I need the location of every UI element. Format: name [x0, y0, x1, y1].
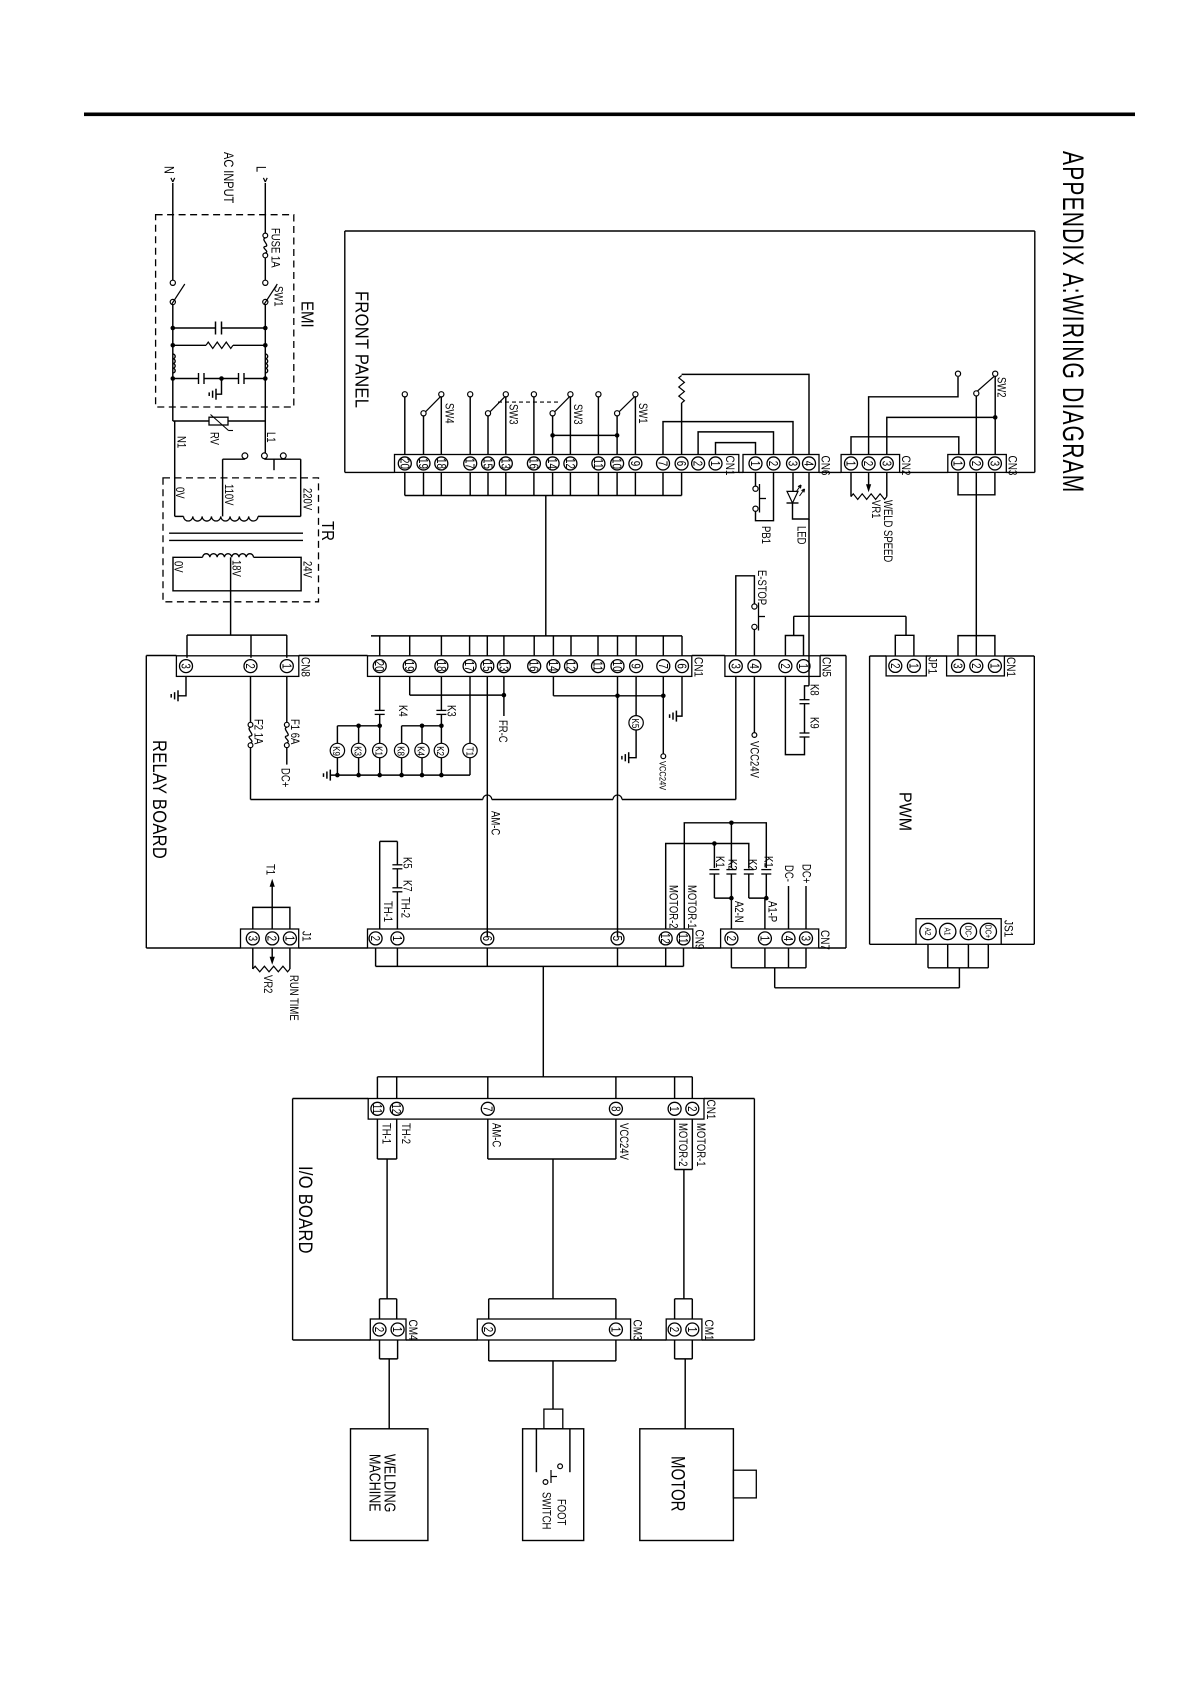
pin 19 CN1 relay board — [402, 660, 416, 673]
wire CN8 feed bus — [187, 635, 287, 658]
contact K9 — [785, 676, 809, 754]
pin 3 CN2 — [879, 457, 893, 470]
pin 2 CN1 PWM — [968, 659, 982, 672]
pin 3 CN3 — [987, 457, 1001, 470]
contact K4 on CN1 pin20 line — [375, 676, 385, 725]
contact K1 right — [761, 870, 771, 899]
wire pin7 to VCC24V terminal — [661, 696, 666, 759]
pin 1 CM1 — [684, 1323, 698, 1336]
pin 1 CN3 — [950, 457, 964, 470]
pin 2 CN1 I/O — [684, 1102, 698, 1115]
pin 12 CN1 I/O — [389, 1102, 403, 1115]
connector CN1 (front panel) — [395, 455, 739, 473]
svg-text:2: 2 — [766, 461, 779, 466]
gang dashed link SW3 — [498, 401, 560, 403]
svg-text:K9: K9 — [331, 746, 342, 756]
connector CN1 (I/O board) — [368, 1099, 704, 1120]
pin 1 CN8 — [279, 660, 293, 673]
wire front panel bus feed to relay CN1 bus — [545, 496, 547, 636]
svg-text:CN3: CN3 — [1005, 456, 1018, 476]
wire SW2 pivot to CN3 pin2 — [975, 396, 977, 455]
wire CN7 pins bracket — [731, 948, 806, 988]
fuse FUSE 1A — [263, 233, 268, 258]
svg-text:2: 2 — [372, 1327, 385, 1332]
fuse F1 6A — [284, 676, 289, 747]
motor shaft — [733, 1470, 756, 1498]
svg-text:CN1: CN1 — [691, 657, 704, 677]
wire 24V rail to CN5 pin3 with hops — [251, 676, 736, 799]
I/O BOARD box — [293, 1099, 755, 1341]
pin 11 CN1 front panel — [591, 457, 605, 470]
svg-text:T1: T1 — [263, 864, 276, 875]
pin 2 CN1 front panel — [690, 457, 704, 470]
connector CN1 (relay board) — [368, 656, 692, 677]
svg-text:AC INPUT: AC INPUT — [221, 152, 236, 204]
pin 2 JP1 — [887, 659, 901, 672]
svg-text:2: 2 — [778, 663, 791, 668]
pin 11 CN1 I/O — [370, 1102, 384, 1115]
ground CN8 pin3 — [171, 690, 178, 701]
svg-text:TH-1: TH-1 — [381, 901, 394, 922]
svg-text:20: 20 — [397, 458, 410, 469]
svg-text:2: 2 — [243, 663, 256, 668]
pin 3 J1 — [245, 932, 259, 945]
svg-text:K4: K4 — [396, 705, 409, 717]
wire MOTOR-2 net H2 — [666, 841, 749, 929]
svg-text:9: 9 — [628, 461, 641, 466]
pin 14 CN1 front panel — [545, 457, 559, 470]
wire CM3 to foot switch — [489, 1340, 616, 1409]
wire pin7 to CN6 pin3 — [663, 422, 793, 455]
svg-text:15: 15 — [479, 661, 492, 672]
relay coil bus K9 K3 K1 — [337, 724, 382, 729]
pin 1 CN1 front panel — [708, 457, 722, 470]
switch SW3 first — [485, 392, 508, 455]
pin 3 CN5 — [728, 660, 742, 673]
svg-text:RELAY BOARD: RELAY BOARD — [149, 740, 171, 859]
wire LED branch down to relay K8 chain — [808, 519, 810, 686]
svg-text:VCC24V: VCC24V — [747, 741, 760, 779]
contact K2 right — [744, 870, 754, 899]
svg-text:E-STOP: E-STOP — [755, 570, 768, 605]
svg-text:4: 4 — [781, 936, 794, 941]
wire L fuse to switch — [264, 258, 266, 280]
connector CM4 — [370, 1319, 406, 1340]
svg-text:SW3: SW3 — [506, 404, 519, 425]
svg-text:VR2: VR2 — [261, 975, 274, 994]
connector CN6 (front panel) — [743, 455, 819, 473]
pin 6 CN1 relay board — [674, 660, 688, 673]
capacitor Y rail with center ground — [171, 373, 268, 384]
pin 2 CM3 — [481, 1323, 495, 1336]
svg-text:CN7: CN7 — [818, 930, 831, 950]
svg-text:MOTOR-1: MOTOR-1 — [694, 1123, 707, 1167]
FOOT SWITCH box — [523, 1429, 584, 1541]
svg-text:0V: 0V — [171, 561, 184, 573]
svg-text:K3: K3 — [444, 705, 457, 717]
wire AM-C vertical pin15 to pin6 bottom — [486, 676, 488, 937]
svg-text:CN1: CN1 — [704, 1100, 717, 1120]
connector CN5 (relay board) — [725, 656, 820, 677]
svg-text:2: 2 — [368, 936, 381, 941]
svg-text:PB1: PB1 — [759, 526, 772, 544]
wire N switch to rail — [172, 305, 174, 380]
svg-text:6: 6 — [674, 663, 687, 668]
svg-text:SW1: SW1 — [271, 286, 284, 307]
svg-text:SW2: SW2 — [994, 377, 1007, 398]
pin 2 CN3 — [968, 457, 982, 470]
svg-text:4: 4 — [801, 461, 814, 466]
connector JP1 — [886, 656, 926, 676]
pin 10 CN1 relay board — [610, 660, 624, 673]
svg-text:AM-C: AM-C — [488, 811, 501, 836]
svg-text:1: 1 — [757, 936, 770, 941]
wire JP1 bracket from CN5 link — [895, 616, 914, 656]
pin DC- JS1 — [960, 923, 976, 939]
svg-text:VCC24V: VCC24V — [657, 761, 668, 791]
wire bracket above PWM CN1 pins 3-1 — [958, 636, 995, 656]
wire pin10 net down to bottom pin5 — [617, 696, 619, 938]
pin 12 CN1 relay board — [563, 660, 577, 673]
wire primary tap select bracket 220V — [264, 459, 300, 471]
transformer core — [169, 533, 303, 540]
switch SW1 pole L — [263, 280, 278, 304]
pin 3 CN7 — [798, 932, 812, 945]
wire L1 down — [264, 379, 266, 453]
wire JS1 pins bracket — [928, 944, 988, 968]
wire F2 to 24V rail — [250, 748, 252, 800]
svg-text:SW3: SW3 — [571, 404, 584, 425]
svg-text:2: 2 — [684, 1106, 697, 1111]
svg-text:19: 19 — [416, 458, 429, 469]
pin A2 JS1 — [920, 923, 936, 939]
wire L switch to rail — [264, 305, 266, 380]
connector JS1 — [916, 919, 1001, 945]
wire I/O top bracket bus — [377, 1077, 692, 1099]
svg-text:A1-P: A1-P — [765, 901, 778, 922]
pin 18 CN1 relay board — [434, 660, 448, 673]
inductor choke L — [265, 354, 267, 373]
pin 1 CN2 — [843, 457, 857, 470]
switch SW1 front panel — [615, 392, 639, 455]
pin 4 CN5 — [747, 660, 761, 673]
pin 7 CN1 I/O — [480, 1102, 494, 1115]
primary winding coil — [175, 421, 301, 516]
svg-text:LED: LED — [794, 526, 807, 545]
svg-text:4: 4 — [747, 663, 760, 668]
wire CM4 to welding machine — [380, 1340, 398, 1429]
wire N input — [172, 183, 174, 280]
pin 20 CN1 relay board — [372, 660, 386, 673]
PWM box — [870, 656, 1035, 944]
svg-text:K3: K3 — [352, 746, 363, 756]
svg-text:MOTOR: MOTOR — [667, 1456, 689, 1511]
wire J1 pin2 T1 arrow — [270, 879, 275, 929]
connector J1 — [241, 929, 299, 948]
pin 9 CN1 front panel — [628, 457, 642, 470]
pin 1 JP1 — [906, 659, 920, 672]
svg-text:DC+: DC+ — [799, 864, 812, 883]
svg-text:L1: L1 — [264, 432, 277, 443]
pin 1 CN6 — [748, 457, 762, 470]
svg-text:10: 10 — [609, 458, 622, 469]
svg-text:2: 2 — [968, 461, 981, 466]
secondary winding coil — [203, 554, 254, 558]
svg-text:1: 1 — [282, 936, 295, 941]
svg-text:3: 3 — [798, 936, 811, 941]
svg-text:I/O BOARD: I/O BOARD — [295, 1166, 316, 1254]
pin 17 CN1 relay board — [462, 660, 476, 673]
wire F1 to DC+ stub — [286, 748, 288, 765]
svg-text:14: 14 — [545, 458, 558, 469]
svg-text:13: 13 — [496, 661, 509, 672]
wire pin6 to ground — [676, 676, 682, 716]
node L (AC input) — [253, 166, 268, 182]
terminal pin16 line — [531, 392, 536, 455]
svg-text:A2-N: A2-N — [732, 901, 745, 923]
svg-text:CN2: CN2 — [899, 456, 912, 476]
svg-text:16: 16 — [526, 661, 539, 672]
wire CN3 pins1-3 bracket — [958, 472, 995, 494]
svg-text:6: 6 — [479, 936, 492, 941]
svg-text:CM3: CM3 — [630, 1320, 643, 1341]
svg-text:K5: K5 — [630, 719, 641, 729]
svg-text:15: 15 — [480, 458, 493, 469]
wire pins 14-10-7 common — [553, 676, 665, 698]
pin 4 CN7 — [781, 932, 795, 945]
svg-text:K1: K1 — [761, 856, 774, 868]
pin 2 CM1 — [667, 1323, 681, 1336]
svg-text:0V: 0V — [173, 487, 186, 499]
pin 12 CN9 — [658, 932, 672, 945]
pin 1 CM3 — [608, 1323, 622, 1336]
relay coil bus K8 K4 K2 — [402, 724, 444, 729]
svg-text:1: 1 — [279, 663, 292, 668]
pin 1 CN9 — [390, 932, 404, 945]
pin 2 CN6 — [766, 457, 780, 470]
svg-text:3: 3 — [987, 461, 1000, 466]
svg-text:1: 1 — [843, 461, 856, 466]
wire J1 pins 3-1 bracket — [253, 907, 290, 929]
switch SW2 — [955, 371, 997, 396]
transformer TR dashed box — [163, 478, 319, 602]
svg-text:1: 1 — [796, 663, 809, 668]
wire CN2 pin1 to CN3 pin1 — [851, 437, 959, 455]
svg-text:TR: TR — [318, 521, 339, 541]
pin 6 CN1 front panel — [674, 457, 688, 470]
svg-text:K2: K2 — [745, 859, 758, 871]
pin 1 J1 — [282, 932, 296, 945]
svg-text:11: 11 — [370, 1104, 383, 1114]
svg-text:24V: 24V — [300, 561, 313, 579]
connector CN2 (front panel) — [841, 455, 900, 473]
pin 19 CN1 front panel — [416, 457, 430, 470]
wire MOTOR bracket to CM1 — [675, 1119, 693, 1319]
svg-text:1: 1 — [390, 936, 403, 941]
capacitor X1 rail — [171, 322, 268, 335]
pin 2 CN9 — [368, 932, 382, 945]
pin 14 CN1 relay board — [546, 660, 560, 673]
wire MOTOR-1 net H1 — [684, 821, 766, 930]
EMI filter dashed box — [156, 215, 294, 407]
svg-text:2: 2 — [861, 461, 874, 466]
svg-text:N: N — [161, 166, 176, 174]
pin 12 CN1 front panel — [563, 457, 577, 470]
wire 220V right lead — [300, 459, 302, 516]
svg-text:SW4: SW4 — [442, 403, 455, 424]
svg-text:3: 3 — [245, 936, 258, 941]
contact K8 — [800, 686, 810, 733]
svg-text:L: L — [253, 166, 268, 172]
pin 6 CN9 — [479, 932, 493, 945]
ground relay coil bus — [324, 770, 331, 781]
pin 11 CN1 relay board — [590, 660, 604, 673]
svg-text:CN1: CN1 — [723, 456, 736, 476]
svg-text:A2: A2 — [923, 928, 933, 936]
svg-text:F1 6A: F1 6A — [288, 719, 301, 745]
wire L input — [264, 183, 266, 233]
svg-text:A1: A1 — [943, 928, 953, 936]
svg-text:MOTOR-2: MOTOR-2 — [676, 1123, 689, 1167]
svg-text:CN1: CN1 — [1004, 657, 1017, 677]
svg-text:1: 1 — [708, 461, 721, 466]
connector CM3 — [477, 1319, 630, 1340]
switch SW4 — [421, 392, 444, 455]
svg-text:K8: K8 — [395, 746, 406, 756]
svg-text:JP1: JP1 — [925, 657, 938, 674]
svg-text:20: 20 — [372, 661, 385, 672]
relay coil K3 — [351, 726, 365, 775]
svg-text:VR1: VR1 — [869, 500, 882, 519]
ground K5 — [622, 752, 629, 763]
pin 13 CN1 relay board — [496, 660, 510, 673]
primary tap plug circles — [242, 453, 286, 459]
connector CM1 — [666, 1319, 702, 1340]
relay coil K8 — [394, 726, 408, 775]
contact K3 on CN1 pin18 line — [436, 676, 446, 725]
svg-text:18: 18 — [434, 661, 447, 672]
svg-text:RV: RV — [207, 432, 220, 446]
pin 2 J1 — [264, 932, 278, 945]
wire CN2 pin3 to SW2 right terminal and CN3 pin3 — [887, 376, 998, 454]
svg-text:F2 1A: F2 1A — [251, 719, 264, 745]
svg-text:13: 13 — [498, 458, 511, 469]
svg-text:TH-2: TH-2 — [398, 897, 411, 918]
svg-text:11: 11 — [591, 458, 604, 468]
svg-text:JS1: JS1 — [1001, 920, 1014, 937]
wire CN5 pin4 to VCC24V terminal — [752, 676, 757, 737]
ground EMI — [209, 379, 221, 400]
FRONT PANEL box — [345, 231, 1035, 472]
MOTOR box — [640, 1429, 734, 1541]
wire pin1 to CN6 pin1 — [716, 443, 756, 455]
svg-text:TH-2: TH-2 — [399, 1123, 412, 1144]
pin 8 CN1 I/O — [608, 1102, 622, 1115]
svg-text:SWITCH: SWITCH — [539, 1492, 552, 1529]
svg-text:MOTOR-2: MOTOR-2 — [666, 885, 679, 929]
svg-text:K9: K9 — [807, 717, 820, 729]
wire relay bottom bracket bus — [376, 948, 684, 966]
svg-text:FUSE 1A: FUSE 1A — [268, 228, 281, 268]
pin 7 CN1 relay board — [655, 660, 669, 673]
svg-text:5: 5 — [610, 936, 623, 941]
resistor on pin6 line — [679, 376, 685, 455]
svg-text:K1: K1 — [713, 856, 726, 868]
svg-text:DC-: DC- — [963, 926, 973, 938]
svg-text:DC+: DC+ — [983, 925, 993, 938]
pin 16 CN1 front panel — [526, 457, 540, 470]
svg-text:12: 12 — [563, 661, 576, 672]
svg-text:7: 7 — [480, 1106, 493, 1111]
wire CN5 pins 1-2 bracket to PWM JP1 — [785, 616, 906, 656]
pin 11 CN9 — [676, 932, 690, 945]
wire relay CN1 pin bus — [371, 636, 682, 656]
wire CN2 pin2 to SW2 terminal — [869, 377, 958, 455]
svg-text:2: 2 — [264, 936, 277, 941]
svg-text:CN5: CN5 — [819, 657, 832, 677]
svg-text:PWM: PWM — [895, 792, 915, 831]
fuse F2 1A — [248, 676, 253, 747]
relay coil T1 — [463, 676, 477, 775]
svg-text:1: 1 — [667, 1106, 680, 1111]
svg-text:16: 16 — [526, 458, 539, 469]
label FOOT SWITCH — [539, 1492, 567, 1529]
pin DC+ JS1 — [980, 923, 996, 939]
svg-text:K2: K2 — [725, 859, 738, 871]
WELDING MACHINE box — [351, 1429, 428, 1541]
wire CN7 to JS1 link — [775, 968, 960, 988]
wire CN3 pin2 down to PWM CN1 pin2 — [975, 472, 977, 656]
header rule — [84, 113, 1135, 117]
svg-text:TH-1: TH-1 — [379, 1123, 392, 1144]
pin 18 CN1 front panel — [433, 457, 447, 470]
wire pin6 resistor to CN6 pin4 — [682, 374, 809, 454]
pin 2 CN2 — [861, 457, 875, 470]
pin 1 CN7 — [757, 932, 771, 945]
svg-text:7: 7 — [655, 663, 668, 668]
wire linking SW3 and SW1 pivots — [550, 433, 619, 438]
svg-text:3: 3 — [879, 461, 892, 466]
svg-text:SW1: SW1 — [636, 403, 649, 424]
svg-text:K4: K4 — [416, 746, 427, 756]
terminal pin20 line — [402, 392, 407, 455]
pin 13 CN1 front panel — [498, 457, 512, 470]
wire 110V tap — [223, 459, 245, 517]
svg-text:K2: K2 — [435, 746, 446, 756]
pin 1 CN1 PWM — [987, 659, 1001, 672]
ground pin6 — [670, 711, 677, 722]
pin 1 CN5 — [796, 660, 810, 673]
svg-text:1: 1 — [987, 663, 1000, 668]
relay coil K5 — [629, 676, 644, 757]
wire 18V secondary down to CN8 bus — [230, 557, 232, 635]
pin 2 CN7 — [724, 932, 738, 945]
svg-text:1: 1 — [906, 663, 919, 668]
pin 15 CN1 front panel — [480, 457, 494, 470]
connector CN9 (relay board bottom) — [368, 929, 693, 948]
relay coil K9 — [330, 726, 344, 775]
svg-text:2: 2 — [887, 663, 900, 668]
contact K2 left — [726, 823, 736, 898]
label WELDING MACHINE — [366, 1454, 398, 1512]
pin 3 CN6 — [785, 457, 799, 470]
svg-text:12: 12 — [389, 1103, 402, 1114]
svg-text:CM1: CM1 — [702, 1320, 715, 1341]
svg-text:17: 17 — [462, 458, 475, 469]
wire pin2 to CN6 pin2 — [698, 432, 773, 455]
relay coil K1 — [373, 726, 387, 775]
pin 9 CN1 relay board — [628, 660, 642, 673]
